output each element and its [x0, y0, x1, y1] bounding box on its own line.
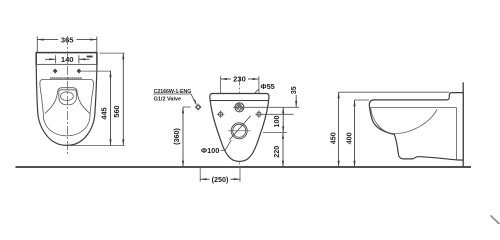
bowl opening (top view): [45, 88, 90, 114]
inlet hole Phi55 hatched: [233, 103, 246, 112]
svg-text:450: 450: [329, 132, 338, 144]
svg-text:35: 35: [289, 86, 298, 94]
note text C2166W-1-ENG / G1/2 Valve: [154, 89, 197, 105]
dimension 560: [112, 53, 123, 145]
dimension 365: [37, 35, 97, 52]
bowl outer outline (top view): [36, 65, 97, 146]
svg-text:560: 560: [112, 105, 121, 117]
svg-text:100: 100: [272, 116, 281, 128]
svg-text:Φ100: Φ100: [201, 146, 219, 155]
top view centerline: [67, 36, 69, 155]
label Phi100 with leader: [201, 116, 251, 155]
dimension 230: [221, 75, 259, 110]
rear view centerline: [239, 77, 241, 168]
dimension 400: [345, 100, 355, 167]
svg-text:(360): (360): [172, 128, 181, 145]
svg-text:Φ55: Φ55: [261, 82, 275, 91]
svg-text:400: 400: [345, 132, 354, 144]
dimension 35: [289, 86, 298, 107]
extension Phi55 level: [246, 106, 300, 108]
svg-text:230: 230: [233, 75, 246, 84]
extension drain level: [263, 132, 287, 134]
wall line: [462, 82, 464, 167]
dimension 450: [329, 92, 339, 167]
dimension (250) below floor: [200, 168, 240, 184]
seat hinge dotted strip: [50, 77, 82, 79]
svg-text:(250): (250): [212, 175, 229, 184]
dimension (360): [172, 107, 191, 167]
extension 400 level: [355, 99, 370, 101]
rear top band line: [210, 100, 269, 102]
svg-text:220: 220: [272, 146, 281, 158]
drain hole Phi100 double circle: [228, 123, 251, 139]
side bowl inner arc: [371, 108, 437, 134]
floor line: [16, 166, 472, 168]
flush button mark: [87, 56, 93, 58]
flush cup (top view): [59, 90, 77, 105]
fixing hole right (rear): [255, 111, 262, 118]
corner diagonal mark: [491, 216, 500, 226]
svg-text:140: 140: [61, 55, 74, 64]
extension fixing hole level: [262, 113, 294, 115]
side inner rim line: [370, 107, 456, 109]
fixing hole left (rear): [217, 111, 224, 118]
extension line plate-top to 560: [100, 52, 125, 54]
dimension 100: [272, 107, 283, 132]
cistern plate rectangle: [36, 53, 97, 65]
fixing hole right (top view): [77, 69, 81, 74]
label Phi55: [231, 82, 275, 116]
dimension 140: [45, 55, 90, 64]
svg-text:445: 445: [99, 107, 108, 119]
fixing hole left (top view): [53, 69, 57, 74]
dimension 220: [272, 133, 283, 167]
bowl inner rim line (top view): [40, 79, 94, 135]
extension 450 level: [339, 91, 450, 93]
dimension 445: [99, 71, 110, 145]
side body outline: [369, 93, 463, 161]
extension line bowl bottom: [67, 145, 125, 147]
oval inside cup (top view): [61, 92, 74, 101]
valve symbol: [195, 103, 201, 110]
svg-text:G1/2 Valve: G1/2 Valve: [154, 96, 182, 102]
leader from right hole to 445 extension: [81, 70, 111, 72]
side inner back vertical: [456, 108, 458, 160]
rear body outline: [210, 94, 269, 162]
